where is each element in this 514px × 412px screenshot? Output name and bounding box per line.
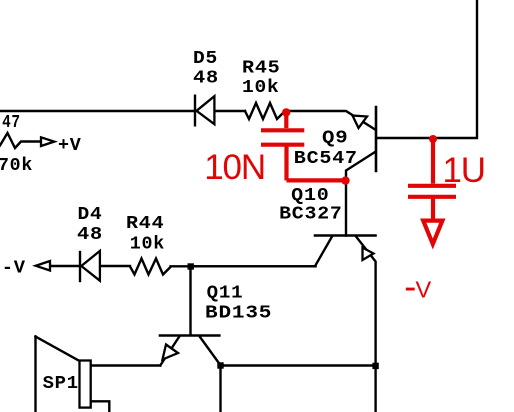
svg-text:BC547: BC547 bbox=[294, 149, 358, 169]
svg-text:48: 48 bbox=[77, 225, 103, 245]
svg-text:+V: +V bbox=[58, 136, 82, 156]
svg-text:-V: -V bbox=[2, 259, 26, 279]
svg-text:R45: R45 bbox=[242, 59, 281, 79]
svg-text:10N: 10N bbox=[204, 148, 265, 187]
svg-text:Q9: Q9 bbox=[322, 129, 349, 149]
svg-text:10k: 10k bbox=[130, 235, 165, 255]
svg-text:70k: 70k bbox=[0, 156, 33, 176]
svg-text:Q10: Q10 bbox=[291, 186, 329, 206]
svg-text:BC327: BC327 bbox=[279, 205, 343, 225]
svg-text:D5: D5 bbox=[193, 49, 218, 69]
svg-text:D4: D4 bbox=[78, 205, 103, 225]
svg-text:47: 47 bbox=[2, 113, 21, 133]
svg-text:R44: R44 bbox=[126, 214, 164, 234]
svg-text:SP1: SP1 bbox=[43, 374, 79, 394]
svg-text:BD135: BD135 bbox=[205, 304, 272, 324]
svg-text:10k: 10k bbox=[242, 78, 280, 98]
svg-text:V: V bbox=[416, 277, 432, 303]
svg-text:1U: 1U bbox=[443, 151, 485, 190]
svg-text:48: 48 bbox=[193, 69, 219, 89]
svg-text:Q11: Q11 bbox=[207, 284, 244, 304]
